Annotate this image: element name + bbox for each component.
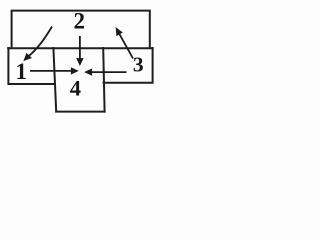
svg-text:4: 4 bbox=[70, 76, 81, 101]
arrow 3 to center (horizontal left) bbox=[91, 71, 127, 73]
middle band left edge + left cell bottom edge bbox=[8, 48, 53, 84]
middle band right edge + right cell bottom edge bbox=[104, 48, 153, 83]
arrow 1 to center (horizontal right) bbox=[30, 70, 72, 72]
svg-text:3: 3 bbox=[133, 53, 144, 77]
arrow 2 to center (vertical down) bbox=[79, 36, 81, 60]
divider / box 4 left wall bbox=[53, 48, 56, 112]
svg-text:2: 2 bbox=[73, 8, 85, 33]
divider / box 4 right wall bbox=[103, 48, 104, 112]
box 2 (top wide box) bbox=[12, 11, 150, 48]
svg-text:1: 1 bbox=[16, 59, 28, 84]
box 4 bottom edge bbox=[56, 111, 104, 113]
arrow 3 to 2 (diagonal up-left) bbox=[120, 34, 134, 58]
middle band top edge bbox=[8, 47, 152, 49]
background bbox=[0, 0, 160, 117]
arrow 2 to 1 (diagonal down-left) bbox=[29, 27, 53, 57]
